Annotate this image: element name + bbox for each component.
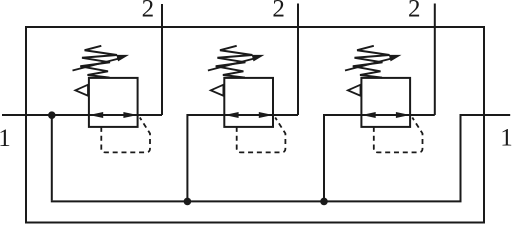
manifold enclosure border xyxy=(26,27,484,223)
svg-text:2: 2 xyxy=(408,0,421,23)
regulator U3 xyxy=(345,46,423,153)
adjustment spring U2 xyxy=(216,46,253,78)
valve body U3 xyxy=(361,78,410,127)
wire: feed riser regulator 3 xyxy=(324,115,361,201)
relief triangle U2 xyxy=(211,85,224,96)
svg-text:1: 1 xyxy=(0,125,11,152)
svg-text:1: 1 xyxy=(500,125,512,152)
flow path arrow U1 xyxy=(89,114,138,116)
regulator U1 xyxy=(73,46,151,153)
wire: bottom supply bus xyxy=(52,200,461,201)
spring adjust arrow U1 xyxy=(73,58,121,70)
svg-text:2: 2 xyxy=(272,0,285,23)
pilot feedback dashed U2 xyxy=(237,118,286,153)
spring adjust arrow U3 xyxy=(345,58,393,70)
junction supply tee xyxy=(48,111,56,119)
svg-text:2: 2 xyxy=(142,0,155,23)
junction bus regulator 3 xyxy=(320,198,328,206)
wire: supply line 1 left xyxy=(2,114,89,116)
adjustment spring U1 xyxy=(80,46,117,78)
pilot feedback dashed U1 xyxy=(101,118,150,153)
relief triangle U3 xyxy=(348,85,361,96)
wire: output 2 regulator 1 xyxy=(138,4,162,115)
pilot feedback dashed U3 xyxy=(374,118,423,153)
regulator U2 xyxy=(208,46,286,153)
spring adjust arrow U2 xyxy=(208,58,256,70)
wire: output 2 regulator 2 xyxy=(273,4,298,116)
flow path arrow U2 xyxy=(224,114,273,116)
wire: tee down from supply junction xyxy=(51,115,53,200)
wire: right port 1 drop xyxy=(461,115,511,201)
adjustment spring U3 xyxy=(353,46,390,78)
relief triangle U1 xyxy=(75,85,88,96)
valve body U1 xyxy=(89,78,138,127)
junction bus regulator 2 xyxy=(184,198,192,206)
wire: feed riser regulator 2 xyxy=(187,115,224,201)
flow path arrow U3 xyxy=(362,114,411,116)
wire: output 2 regulator 3 xyxy=(410,4,434,116)
valve body U2 xyxy=(224,78,273,127)
